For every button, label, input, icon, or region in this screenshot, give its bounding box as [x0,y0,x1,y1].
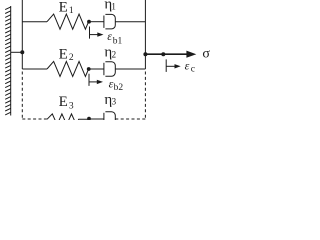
dashpot η1 piston [103,16,105,28]
strain marker ε_b2 bar [88,74,90,86]
dashpot η2 piston [103,63,105,75]
wire: row 3 left (dashed) [22,118,47,120]
node: row 3 spring-dashpot junction dot [87,117,91,121]
left bus wire (dashed continuation) [21,72,23,120]
svg-text:ε: ε [107,29,112,43]
node: σ takeoff dot on right bus [143,52,147,56]
wall hatching [5,7,11,115]
label E1 [59,0,74,16]
svg-text:σ: σ [202,47,210,62]
node: row 1 spring-dashpot junction dot [87,20,91,24]
strain marker ε_c arrow line [166,65,175,67]
label η3 [104,92,116,108]
label ε_b1 [107,29,122,46]
svg-text:1: 1 [69,6,74,16]
svg-text:ε: ε [185,58,190,72]
strain marker ε_b2 arrow line [89,81,98,83]
arrowhead ε_c [175,64,181,68]
label ε_c [185,58,195,74]
wire: wall anchor [11,51,23,53]
label η2 [104,44,116,60]
wire: row 3 right (dashed) [115,118,145,120]
svg-text:3: 3 [112,96,117,106]
left bus wire (solid) [21,0,23,69]
strain marker ε_c bar [165,59,167,72]
node: ε_c reference dot on σ line [161,52,165,56]
label E3 [59,94,74,112]
wire: row 1 right [115,21,145,23]
fixed wall line [10,6,12,116]
right bus wire (dashed continuation) [144,72,146,121]
dashpot η1 cylinder [105,14,115,28]
arrowhead ε_b1 [97,32,103,36]
node: row 2 spring-dashpot junction dot [87,67,91,71]
wire: row 2 piston rod [89,68,104,70]
spring E1 [47,14,89,29]
label ε_b2 [109,77,124,93]
svg-text:b1: b1 [113,36,123,46]
wire: row 3 piston rod [89,118,104,120]
svg-text:E: E [59,94,68,110]
wire: row 2 right [115,68,145,70]
dashpot η2 cylinder [105,62,115,77]
svg-text:3: 3 [69,102,74,112]
svg-text:2: 2 [112,50,117,60]
svg-text:c: c [191,64,195,74]
wire: row 2 left [22,68,47,70]
arrowhead σ (large) [186,51,196,58]
wire: row 1 piston rod [89,21,104,23]
svg-text:1: 1 [111,1,116,11]
dashpot η3 cylinder [105,112,115,127]
strain marker ε_b1 arrow line [90,34,99,36]
svg-text:2: 2 [69,53,74,63]
strain marker ε_b1 bar [89,27,91,39]
spring E2 [47,61,89,76]
arrowhead ε_b2 [97,80,103,84]
node: wall anchor junction dot [20,50,24,54]
right bus wire (solid) [144,0,146,69]
spring E3 (clipped at bottom) [47,114,89,125]
stress arrow σ line [145,53,188,55]
wire: row 1 left [22,21,47,23]
svg-text:b2: b2 [114,83,124,93]
svg-text:E: E [59,0,68,15]
label E2 [59,46,74,62]
label η1 [104,0,116,12]
svg-text:E: E [59,46,68,62]
dashpot η3 piston [103,113,105,120]
